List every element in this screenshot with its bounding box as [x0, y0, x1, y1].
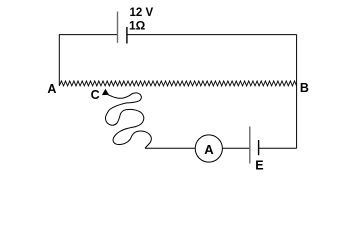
battery 12V long plate	[117, 12, 119, 43]
wire cell to right vertical	[259, 147, 297, 149]
cell E short plate	[258, 140, 260, 155]
wire bottom-left horizontal	[145, 147, 195, 149]
wire left vertical	[58, 35, 60, 86]
svg-text:12 V: 12 V	[130, 7, 154, 19]
ammeter A1 circle	[195, 135, 222, 162]
svg-text:A: A	[47, 82, 56, 96]
squiggle flexible wire from jockey	[105, 93, 151, 148]
jockey arrow at C	[102, 89, 109, 95]
battery 12V short plate	[126, 27, 128, 44]
resistor wire AB zigzag	[59, 81, 296, 86]
svg-text:C: C	[91, 88, 100, 102]
wire top-left horizontal	[59, 34, 118, 36]
svg-text:A: A	[204, 142, 214, 157]
cell E long plate	[249, 127, 251, 164]
svg-text:E: E	[255, 158, 263, 172]
wire ammeter to cell	[222, 147, 250, 149]
wire top-right horizontal	[127, 34, 297, 36]
wire right vertical	[296, 35, 298, 149]
svg-text:B: B	[300, 81, 309, 95]
svg-text:1Ω: 1Ω	[129, 19, 146, 33]
